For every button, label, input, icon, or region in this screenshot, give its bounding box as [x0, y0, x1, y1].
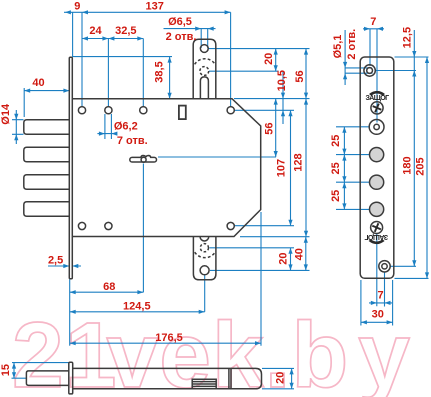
tab hole leader	[209, 48, 310, 50]
svg-text:128: 128	[292, 153, 304, 171]
circle leaders	[336, 127, 370, 210]
brand logo bottom (rotated)	[364, 233, 388, 244]
dim 2,5	[48, 265, 81, 267]
lock body outline	[72, 99, 260, 237]
svg-text:124,5: 124,5	[123, 300, 151, 312]
faceplate top leader	[395, 56, 429, 58]
svg-text:68: 68	[103, 281, 115, 293]
keyhole leader	[158, 156, 276, 158]
ext line hole col A	[81, 12, 83, 106]
side view serrated block	[192, 379, 216, 389]
dim 15	[13, 363, 15, 379]
dim 20 btm	[290, 248, 292, 271]
svg-text:Ø14: Ø14	[0, 103, 12, 125]
side view plate top leader	[12, 362, 69, 364]
btm tab hole1 leader	[210, 247, 295, 249]
body bottom ext right	[240, 236, 310, 238]
dashed circle leader	[209, 70, 279, 72]
svg-text:20: 20	[278, 252, 290, 264]
keyhole	[130, 156, 157, 162]
watermark 21vek.by	[12, 302, 411, 397]
svg-text:107: 107	[276, 159, 288, 177]
svg-text:Ø6,5: Ø6,5	[168, 16, 192, 28]
dim 24/32,5 line	[82, 38, 143, 40]
svg-text:7: 7	[377, 290, 383, 302]
dim 40	[24, 88, 69, 117]
svg-text:12,5: 12,5	[401, 27, 413, 48]
ext line faceplate top	[72, 12, 74, 57]
dim 107	[290, 110, 292, 225]
bolt hole 1	[370, 148, 384, 162]
ext plate top right	[73, 56, 172, 58]
ext line corner hole col	[230, 12, 232, 106]
svg-text:2 отв.: 2 отв.	[166, 31, 197, 43]
dim 176,5	[70, 342, 261, 344]
front faceplate (right view)	[360, 57, 394, 278]
svg-text:15: 15	[0, 364, 12, 376]
side view body	[73, 368, 262, 388]
bottom tab hole	[200, 266, 209, 275]
dim 9/137 line top	[64, 11, 231, 13]
btm tab hole2 leader	[210, 269, 310, 271]
top countersunk hole	[364, 65, 375, 76]
svg-text:25: 25	[330, 135, 342, 147]
svg-text:20: 20	[263, 53, 275, 65]
keyhole down ext	[142, 164, 144, 293]
svg-text:30: 30	[372, 309, 384, 321]
svg-text:38,5: 38,5	[154, 61, 166, 82]
side view right leaders	[262, 368, 294, 388]
corner hole leader	[235, 109, 295, 111]
dim 124,5	[70, 311, 205, 313]
svg-text:40: 40	[293, 248, 305, 260]
BLACK drawing layer	[24, 39, 394, 394]
dim o6,2	[97, 114, 115, 139]
dim 20 side	[291, 368, 293, 388]
bolt bar 2	[24, 147, 70, 162]
svg-text:9: 9	[74, 1, 80, 13]
ext plate bottom	[69, 279, 71, 345]
bolt bar 1	[24, 120, 70, 135]
bottom tab dashed circle	[200, 244, 208, 252]
svg-text:24: 24	[89, 25, 102, 37]
top tab hole o6,5	[200, 45, 208, 53]
dim 10,5 carrier	[282, 72, 284, 124]
small slot	[179, 106, 186, 120]
phillips screw bottom	[371, 222, 383, 234]
side view divider lines	[229, 368, 231, 388]
svg-text:2,5: 2,5	[48, 254, 63, 266]
dim o6,5	[164, 29, 216, 48]
svg-text:20: 20	[274, 372, 286, 384]
brand logo top	[366, 91, 390, 102]
bottom hole row leader	[235, 225, 295, 227]
top tab slot	[200, 77, 208, 99]
right edge down ext	[260, 212, 262, 346]
dim 68	[70, 291, 144, 293]
dim o5,1	[345, 30, 372, 85]
faceplate top hole leader	[376, 70, 417, 72]
side view lower leader	[12, 377, 27, 379]
svg-text:Ø5,1: Ø5,1	[332, 35, 344, 59]
svg-text:25: 25	[330, 190, 342, 202]
svg-text:40: 40	[32, 77, 44, 89]
svg-text:Ø6,2: Ø6,2	[114, 120, 138, 132]
svg-text:56: 56	[294, 70, 306, 82]
bolt hole 3	[370, 202, 384, 216]
btm tab hole down ext	[204, 275, 206, 312]
dim 7 bottom	[369, 234, 392, 307]
faceplate bottom hole leader	[391, 265, 417, 267]
bottom tab half hole	[200, 237, 209, 241]
dim 25 chain	[343, 127, 345, 210]
cylinder hole	[369, 120, 384, 135]
svg-text:180: 180	[401, 156, 413, 174]
svg-text:7: 7	[370, 16, 376, 28]
side view faceplate	[69, 362, 73, 394]
bottom tab dashed arc	[195, 252, 215, 257]
ext hole col B	[107, 39, 109, 107]
svg-text:25: 25	[330, 162, 342, 174]
svg-text:2 отв.: 2 отв.	[346, 29, 358, 60]
svg-text:32,5: 32,5	[115, 25, 136, 37]
bottom tab	[193, 237, 216, 280]
faceplate bottom leader	[395, 277, 429, 279]
phillips screw top	[371, 102, 383, 114]
screw holes o6,2 top row	[78, 107, 85, 114]
side view bolt bar	[26, 371, 68, 386]
svg-text:176,5: 176,5	[155, 332, 183, 344]
dim 40 btm	[305, 237, 307, 271]
svg-text:56: 56	[264, 122, 276, 134]
bolt bar 3	[24, 175, 70, 190]
svg-text:10,5: 10,5	[276, 70, 288, 91]
bolt hole 2	[370, 175, 384, 189]
screw holes o6,2 bottom row	[78, 222, 85, 229]
svg-text:137: 137	[146, 1, 164, 13]
dim 7 top faceplate	[363, 29, 384, 123]
ext hole col C	[142, 39, 144, 107]
svg-text:7 отв.: 7 отв.	[117, 135, 148, 147]
lock faceplate edge-on (main view)	[69, 57, 72, 278]
bolt bar 4	[24, 202, 70, 217]
dim 56top+128	[305, 49, 307, 237]
dim 56 mid	[275, 99, 277, 157]
svg-text:ЗАЩОГ: ЗАЩОГ	[366, 95, 390, 102]
top tab dashed arc	[195, 59, 215, 65]
top tab	[193, 39, 216, 98]
dim 38,5	[169, 57, 171, 99]
top tab dashed circle	[200, 67, 209, 76]
svg-text:ЗАЩОГ: ЗАЩОГ	[364, 233, 388, 240]
svg-text:205: 205	[415, 157, 427, 175]
dim 30	[361, 280, 393, 326]
bottom countersunk hole	[379, 261, 390, 272]
dim 205	[426, 57, 428, 278]
dim 12,5/180 carrier	[413, 30, 415, 266]
dim 20 tab	[275, 49, 277, 72]
body top ext right	[234, 98, 310, 100]
dim o14	[12, 110, 24, 144]
